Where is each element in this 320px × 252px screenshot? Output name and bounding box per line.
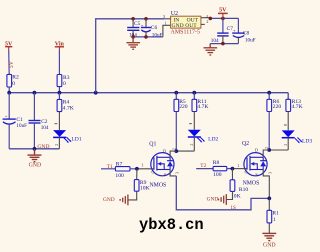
wire LD3 to Q2 drain node [269, 149, 288, 151]
svg-text:C5: C5 [134, 21, 141, 27]
power port Vin [55, 42, 65, 50]
junction rail/C6 [144, 35, 148, 39]
svg-text:100: 100 [115, 173, 124, 179]
wire R4 to LD1 [58, 112, 60, 130]
wire R10 to ground [227, 191, 233, 199]
wire main supply bus [9, 92, 288, 94]
transistor Q2 [232, 141, 272, 198]
junction bus/R3/R4 [58, 91, 62, 95]
svg-text:R1: R1 [272, 211, 279, 217]
resistor R3 [57, 75, 70, 87]
transistor Q1 [137, 142, 180, 189]
junction bus/C2 [33, 91, 37, 95]
ground (under C5) [126, 37, 140, 49]
junction C5 top [131, 17, 135, 21]
capacitor C5 [127, 19, 140, 39]
junction rail/C7 [221, 42, 225, 46]
wire bus to U2 input [96, 19, 165, 93]
LED LD3 [282, 125, 313, 150]
wire R1 to ground [268, 223, 270, 233]
svg-text:GND: GND [172, 23, 184, 29]
svg-text:LD3: LD3 [302, 138, 312, 144]
wire R8 to Q2 gate [227, 168, 233, 170]
svg-text:+: + [233, 28, 236, 33]
junction bus/R5 [174, 91, 178, 95]
svg-text:LD1: LD1 [71, 137, 81, 143]
svg-text:5V: 5V [9, 60, 15, 68]
svg-text:2: 2 [264, 147, 269, 149]
resistor R6 [267, 93, 281, 112]
wire Vin port to R3 [58, 50, 60, 75]
svg-text:GND: GND [103, 197, 115, 203]
capacitor C2 [29, 93, 49, 149]
svg-text:C6: C6 [151, 25, 158, 31]
LED LD2 [188, 124, 219, 151]
wire bus end down to R13 [287, 93, 289, 100]
svg-text:2: 2 [206, 19, 208, 24]
svg-text:ybx8.cn: ybx8.cn [139, 216, 204, 234]
svg-text:T2: T2 [200, 163, 206, 169]
svg-text:0: 0 [12, 81, 15, 87]
resistor R7 [115, 161, 130, 179]
svg-text:+: + [5, 114, 8, 119]
wire Q1 source to Q2 source (net 1S) [176, 176, 269, 210]
capacitor C8 [232, 18, 255, 43]
svg-text:4.7K: 4.7K [197, 104, 208, 110]
svg-text:LD2: LD2 [208, 137, 218, 143]
junction 5V/C7 [221, 17, 225, 21]
net label 5V (rotated) [9, 60, 15, 68]
svg-text:1: 1 [273, 217, 276, 223]
svg-text:+: + [141, 23, 144, 28]
power port 5V left [5, 42, 13, 50]
svg-text:4.7K: 4.7K [292, 104, 303, 110]
svg-text:1: 1 [164, 20, 166, 25]
svg-text:D: D [255, 148, 258, 153]
svg-text:1S: 1S [230, 205, 236, 211]
op-amp/regulator U2 AMS1117-5 [163, 11, 210, 36]
svg-text:5V: 5V [219, 7, 227, 13]
LED LD1 [53, 124, 82, 149]
svg-text:220: 220 [273, 104, 282, 110]
wire C5/C6 bottom rail [133, 36, 163, 38]
ground (R10, sideways) [219, 194, 227, 205]
wire R5 to Q1 drain node [175, 112, 177, 152]
resistor R13 [286, 99, 303, 111]
svg-text:GND: GND [263, 242, 276, 248]
junction gate Q2/R10 [231, 167, 235, 171]
resistor R8 [213, 160, 227, 178]
wire R3 to bus [58, 87, 60, 93]
svg-text:R2: R2 [12, 75, 19, 81]
junction rail/ground [33, 147, 37, 151]
svg-text:GND: GND [29, 163, 42, 169]
ground (under R1) [262, 233, 276, 240]
junction bus/R11 [192, 91, 196, 95]
svg-text:NMOS: NMOS [150, 182, 167, 188]
junction rail/C5/ground [131, 35, 135, 39]
svg-text:OUT: OUT [185, 23, 197, 29]
junction gate Q1/R9 [135, 167, 139, 171]
svg-text:Q2: Q2 [242, 141, 249, 147]
resistor R9 [134, 169, 149, 192]
junction bus/R6 [267, 91, 271, 95]
resistor R1 [267, 198, 279, 223]
svg-text:D: D [163, 149, 166, 154]
capacitor C1 [3, 93, 28, 149]
svg-text:GND: GND [207, 197, 219, 203]
svg-text:NMOS: NMOS [243, 181, 260, 187]
wire R6 to Q2 drain node [268, 112, 270, 151]
wire R7 to Q1 gate [130, 168, 137, 170]
svg-text:1: 1 [141, 162, 143, 167]
wire 5V port to R2 [8, 50, 11, 74]
svg-text:2: 2 [283, 144, 288, 146]
svg-text:AMS1117-5: AMS1117-5 [171, 30, 201, 36]
wire R9 to ground [128, 191, 137, 200]
wire T1 input [101, 168, 115, 170]
junction C6 top [144, 17, 148, 21]
resistor R11 [192, 93, 208, 112]
svg-text:104: 104 [41, 125, 49, 131]
wire R11 to LD2 [193, 112, 195, 130]
junction source node/R1 [267, 197, 271, 201]
svg-text:1: 1 [237, 163, 239, 168]
svg-text:R4: R4 [63, 100, 70, 106]
svg-text:R7: R7 [116, 161, 123, 167]
wire ground rail left [9, 148, 59, 150]
resistor R2 [7, 74, 19, 87]
capacitor C6 [141, 19, 163, 39]
ground (left rail) [28, 149, 42, 162]
ground (R9, sideways) [120, 195, 128, 206]
svg-text:104: 104 [211, 38, 219, 44]
svg-text:220: 220 [179, 104, 188, 110]
svg-text:Q1: Q1 [149, 142, 156, 148]
svg-text:2: 2 [189, 144, 194, 146]
svg-text:10uF: 10uF [152, 33, 163, 39]
svg-text:10uF: 10uF [245, 38, 256, 44]
wire C7/C8 bottom rail [210, 43, 238, 45]
svg-text:R8: R8 [213, 160, 220, 166]
resistor R10 [230, 169, 248, 200]
svg-text:2: 2 [54, 144, 59, 146]
junction bus/R2/C1 [7, 91, 11, 95]
svg-text:10uF: 10uF [16, 123, 27, 129]
svg-text:C8: C8 [243, 31, 250, 37]
wire T2 input [196, 168, 213, 170]
resistor R5 [174, 93, 188, 112]
svg-text:GND: GND [37, 144, 49, 150]
power port 5V top [218, 7, 228, 18]
junction bus/U2 feed [94, 91, 98, 95]
resistor R4 [57, 93, 74, 112]
svg-text:10K: 10K [140, 185, 150, 191]
svg-text:0: 0 [63, 81, 66, 87]
wire R2 to bus [8, 87, 10, 93]
wire LD2 to Q1 drain node [176, 150, 194, 152]
junction Q1 drain [174, 149, 178, 153]
wire R13 to LD3 [287, 112, 289, 131]
junction pin4 wire [209, 17, 213, 21]
svg-text:2: 2 [171, 148, 176, 150]
wire U2 GND pin1 [163, 25, 171, 37]
svg-text:4.7K: 4.7K [63, 106, 74, 112]
svg-text:R10: R10 [239, 187, 249, 193]
junction Q2 drain [267, 148, 271, 152]
ground (under C7) [204, 44, 218, 55]
svg-text:T1: T1 [107, 164, 113, 170]
wire U2 out to 5V/C8 [210, 17, 238, 19]
capacitor C7 [211, 18, 233, 43]
svg-text:100: 100 [213, 172, 222, 178]
